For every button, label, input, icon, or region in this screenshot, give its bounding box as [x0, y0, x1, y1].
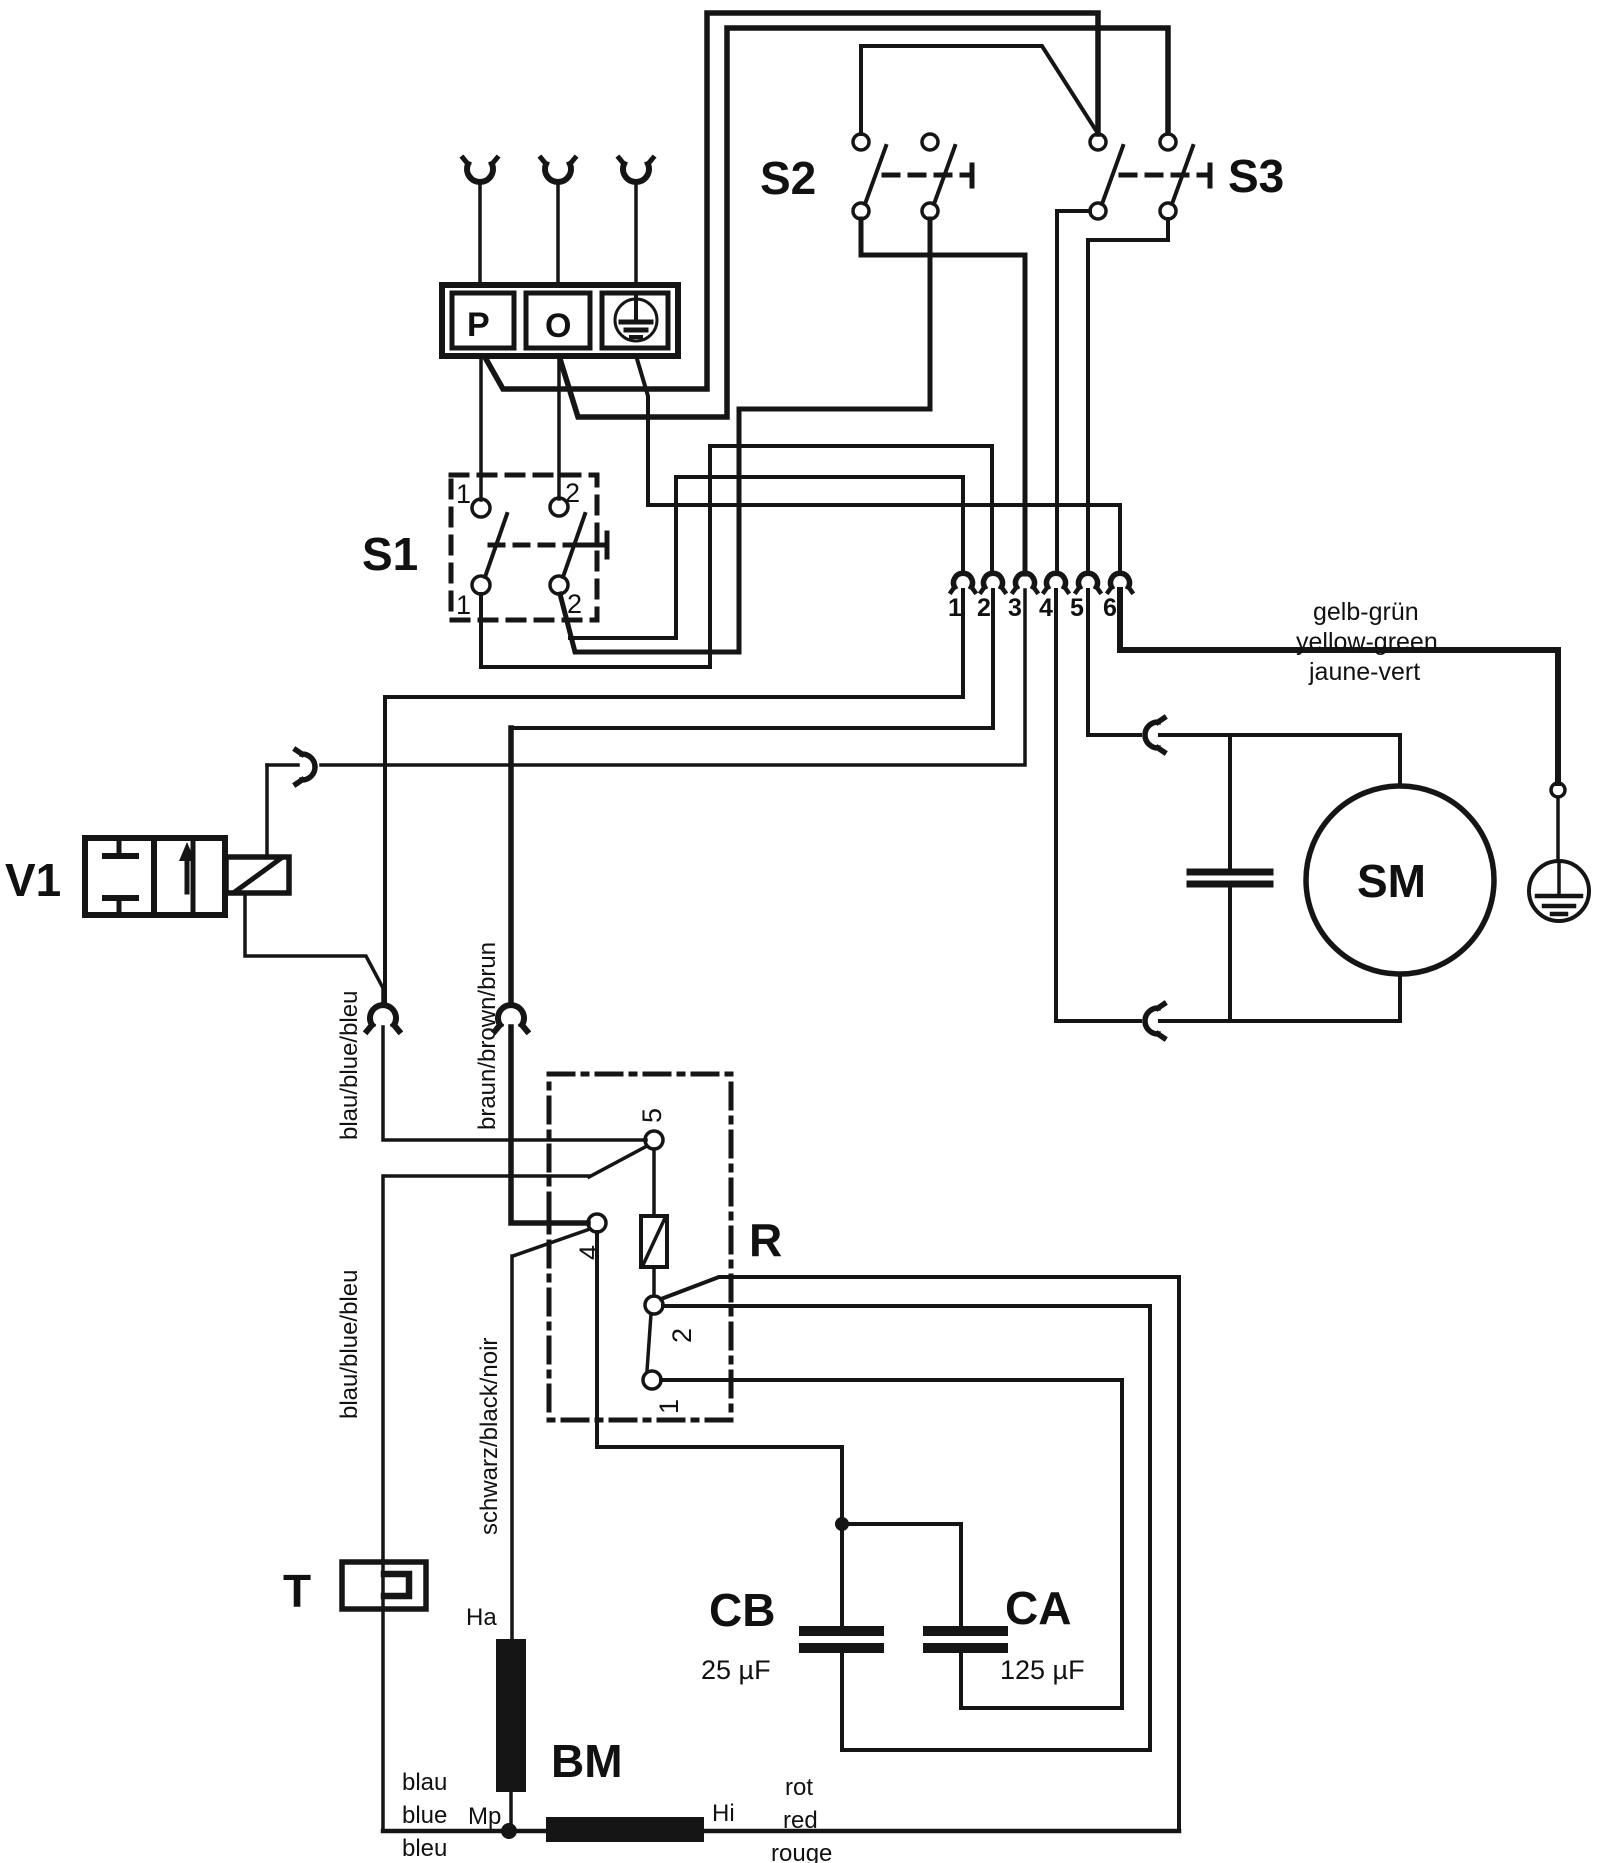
- wire O rail to S3 pole2 top: [560, 28, 1168, 417]
- BM winding Hi: [546, 1817, 704, 1842]
- terminal block X1: [442, 285, 678, 356]
- svg-text:1: 1: [456, 479, 471, 509]
- S3 coupling dashes: [1121, 173, 1200, 178]
- wire connector1 to blue node: [385, 590, 963, 697]
- relay contact 4: [588, 1214, 606, 1232]
- svg-text:V1: V1: [5, 854, 61, 906]
- svg-text:2: 2: [667, 1328, 697, 1343]
- relay contact 1: [643, 1371, 661, 1389]
- S1 contact 1 bottom: [472, 576, 490, 594]
- svg-text:125 µF: 125 µF: [1000, 1655, 1085, 1685]
- svg-text:Mp: Mp: [468, 1803, 501, 1830]
- motor run capacitor: [1190, 735, 1270, 1021]
- S2 coupling dashes: [884, 173, 962, 178]
- relay contact 1 wire to CA bottom: [661, 1380, 1122, 1708]
- motor bottom lead: [1398, 974, 1402, 1021]
- capacitor CA: [928, 1631, 1003, 1648]
- svg-text:gelb-grün: gelb-grün: [1313, 598, 1419, 626]
- svg-text:2: 2: [565, 478, 580, 508]
- svg-text:blau/blue/bleu: blau/blue/bleu: [336, 991, 363, 1140]
- wire S1 contact2 to connector 1: [570, 477, 963, 638]
- wire connector3 to V1 coil top: [321, 590, 1025, 765]
- wire S3 pole1 bottom to connector 4: [1057, 211, 1090, 574]
- wire junction to CA top: [842, 1524, 961, 1626]
- brown wire connector pair: [495, 1005, 527, 1031]
- bottom rail blue to capacitor rail: [383, 1829, 1179, 1834]
- svg-text:blau/blue/bleu: blau/blue/bleu: [336, 1270, 363, 1419]
- wire plug2 to O: [556, 183, 560, 284]
- svg-text:S1: S1: [362, 528, 418, 580]
- wire earth rail to connector 6: [637, 359, 1120, 574]
- wire S2 pole1 bottom to connector 3: [861, 219, 1025, 574]
- svg-text:S2: S2: [760, 152, 816, 204]
- brown wire vertical: [508, 728, 514, 1004]
- V1 coil bottom wire to blue node: [245, 893, 383, 1004]
- wire P to S1 contact 1: [479, 357, 483, 500]
- relay contact 2: [645, 1296, 663, 1314]
- svg-text:braun/brown/brun: braun/brown/brun: [474, 942, 501, 1130]
- svg-text:5: 5: [1070, 594, 1084, 622]
- svg-text:5: 5: [637, 1108, 667, 1123]
- wire to relay arm from blue branch: [385, 1174, 589, 1178]
- svg-text:blau: blau: [402, 1769, 447, 1796]
- svg-text:yellow-green: yellow-green: [1296, 628, 1438, 656]
- relay arm contact2-contact1: [647, 1314, 651, 1371]
- S2 top wire pole1 to S3 pole1: [861, 46, 1097, 134]
- wire relay contact4 down to junction: [597, 1232, 842, 1626]
- wire Ha bottom to Mp junction: [509, 1792, 513, 1830]
- svg-text:Hi: Hi: [712, 1800, 735, 1827]
- wire plug3 to earth terminal: [634, 183, 638, 284]
- black wire to BM Ha: [510, 1256, 514, 1640]
- relay R dash-dot box: [549, 1074, 731, 1420]
- wire connector2 to brown wire: [511, 590, 993, 728]
- svg-text:blue: blue: [402, 1802, 447, 1829]
- plug connector top 2: [541, 158, 575, 182]
- BM winding Ha: [496, 1639, 526, 1792]
- wire S1 contact2 jog: [560, 594, 575, 652]
- svg-text:2: 2: [567, 589, 582, 619]
- blue wire to relay contact 5: [383, 1027, 646, 1140]
- small circle on earth lead: [1551, 783, 1565, 797]
- svg-text:1: 1: [654, 1399, 684, 1414]
- capacitor CB: [804, 1631, 879, 1648]
- valve V1: [85, 838, 225, 915]
- svg-text:BM: BM: [551, 1735, 623, 1787]
- svg-text:red: red: [783, 1807, 818, 1834]
- plug connector top 3: [619, 158, 653, 182]
- svg-text:rot: rot: [785, 1774, 813, 1801]
- plug connector top 1: [463, 158, 497, 182]
- junction node CB/CA: [835, 1517, 849, 1531]
- svg-text:6: 6: [1103, 594, 1117, 622]
- relay arm from contact 5: [589, 1146, 647, 1177]
- S3 pole2 bottom contact: [1160, 203, 1176, 219]
- wire connector4 to motor bottom: [1056, 590, 1140, 1021]
- svg-text:CA: CA: [1005, 1582, 1071, 1634]
- connector strip hooks 1-6: [951, 573, 1132, 592]
- terminal earth symbol: [615, 294, 657, 341]
- svg-text:jaune-vert: jaune-vert: [1308, 658, 1420, 686]
- svg-text:SM: SM: [1357, 855, 1426, 907]
- wire connector6 to earth: [1120, 590, 1558, 783]
- relay contact 2 upper wire to capacitor rail: [661, 1277, 1179, 1831]
- protective earth symbol: [1529, 861, 1589, 921]
- S2 pole1 bottom contact: [853, 203, 869, 219]
- wire S1 contact1 bottom to connector 2: [481, 446, 992, 667]
- motor SM: [1306, 786, 1494, 974]
- svg-text:T: T: [283, 1565, 311, 1617]
- S2 pole2 bottom contact: [922, 203, 938, 219]
- svg-text:O: O: [545, 307, 571, 345]
- brown wire to relay contact 4: [511, 1027, 588, 1223]
- connector pair on motor top wire: [1145, 718, 1164, 752]
- Mp junction node: [501, 1823, 517, 1839]
- S1 arm pole2: [563, 514, 585, 577]
- S3 pole1 top contact: [1090, 134, 1106, 150]
- svg-text:R: R: [749, 1214, 782, 1266]
- svg-text:Ha: Ha: [466, 1604, 497, 1631]
- blue wire lower vertical to T: [381, 1176, 385, 1830]
- blau blue bleu label: [402, 1769, 447, 1862]
- wire O to S1 contact 2: [557, 357, 561, 499]
- svg-text:4: 4: [1039, 594, 1053, 622]
- wire plug1 to P: [478, 183, 482, 284]
- S2 pole1 top contact: [853, 134, 869, 150]
- S2 pole1 arm: [865, 146, 886, 204]
- switch S1 dashed box: [451, 475, 597, 620]
- S1 contact 2 top: [550, 498, 568, 516]
- V1 coil top wire: [265, 765, 269, 855]
- svg-text:1: 1: [948, 594, 962, 622]
- connector pair on motor bottom wire: [1145, 1004, 1164, 1038]
- svg-text:25 µF: 25 µF: [701, 1655, 771, 1685]
- S2 pole2 top contact: [922, 134, 938, 150]
- V1 solenoid: [226, 857, 289, 893]
- relay arm from contact 4 to black wire: [513, 1229, 590, 1256]
- svg-text:1: 1: [456, 590, 471, 620]
- svg-text:bleu: bleu: [402, 1835, 447, 1862]
- svg-text:S3: S3: [1228, 150, 1284, 202]
- svg-text:2: 2: [977, 594, 991, 622]
- S1 contact 1 top: [472, 499, 490, 517]
- svg-text:schwarz/black/noir: schwarz/black/noir: [476, 1338, 503, 1535]
- S3 pole1 arm: [1102, 146, 1123, 204]
- earth lead lower: [1556, 797, 1560, 861]
- connector pair on V1 wire: [296, 750, 315, 784]
- motor top lead: [1398, 735, 1402, 786]
- relay contact 5: [645, 1131, 663, 1149]
- blue wire upper vertical: [383, 697, 387, 1004]
- S2 pole2 arm: [934, 146, 955, 204]
- S1 arm pole1: [485, 514, 507, 577]
- thermostat T: [342, 1562, 426, 1609]
- wire P rail to S3 pole1 top: [486, 13, 1098, 389]
- wire connector5 to motor top: [1088, 590, 1140, 735]
- relay contact 2 lower wire to CB bottom: [663, 1306, 1150, 1750]
- relay heater resistor: [641, 1149, 667, 1296]
- svg-text:P: P: [467, 306, 490, 344]
- S3 pole1 bottom contact: [1090, 203, 1106, 219]
- blue wire connector pair: [367, 1005, 399, 1031]
- S1 contact 2 bottom: [550, 576, 568, 594]
- svg-text:rouge: rouge: [771, 1840, 832, 1863]
- wire CB bottom: [842, 1653, 1150, 1750]
- wire S3 pole2 bottom to connector 5: [1088, 219, 1168, 574]
- wire CA bottom: [961, 1653, 1122, 1708]
- rot red rouge label: [771, 1774, 832, 1863]
- S3 pole2 arm: [1172, 146, 1193, 204]
- S3 pole2 top contact: [1160, 134, 1176, 150]
- svg-text:CB: CB: [709, 1584, 775, 1636]
- S1 coupling dashes: [490, 543, 572, 548]
- wire S2 pole2 bottom to S1 contact2: [560, 219, 930, 652]
- svg-text:3: 3: [1008, 594, 1022, 622]
- svg-text:4: 4: [574, 1245, 604, 1260]
